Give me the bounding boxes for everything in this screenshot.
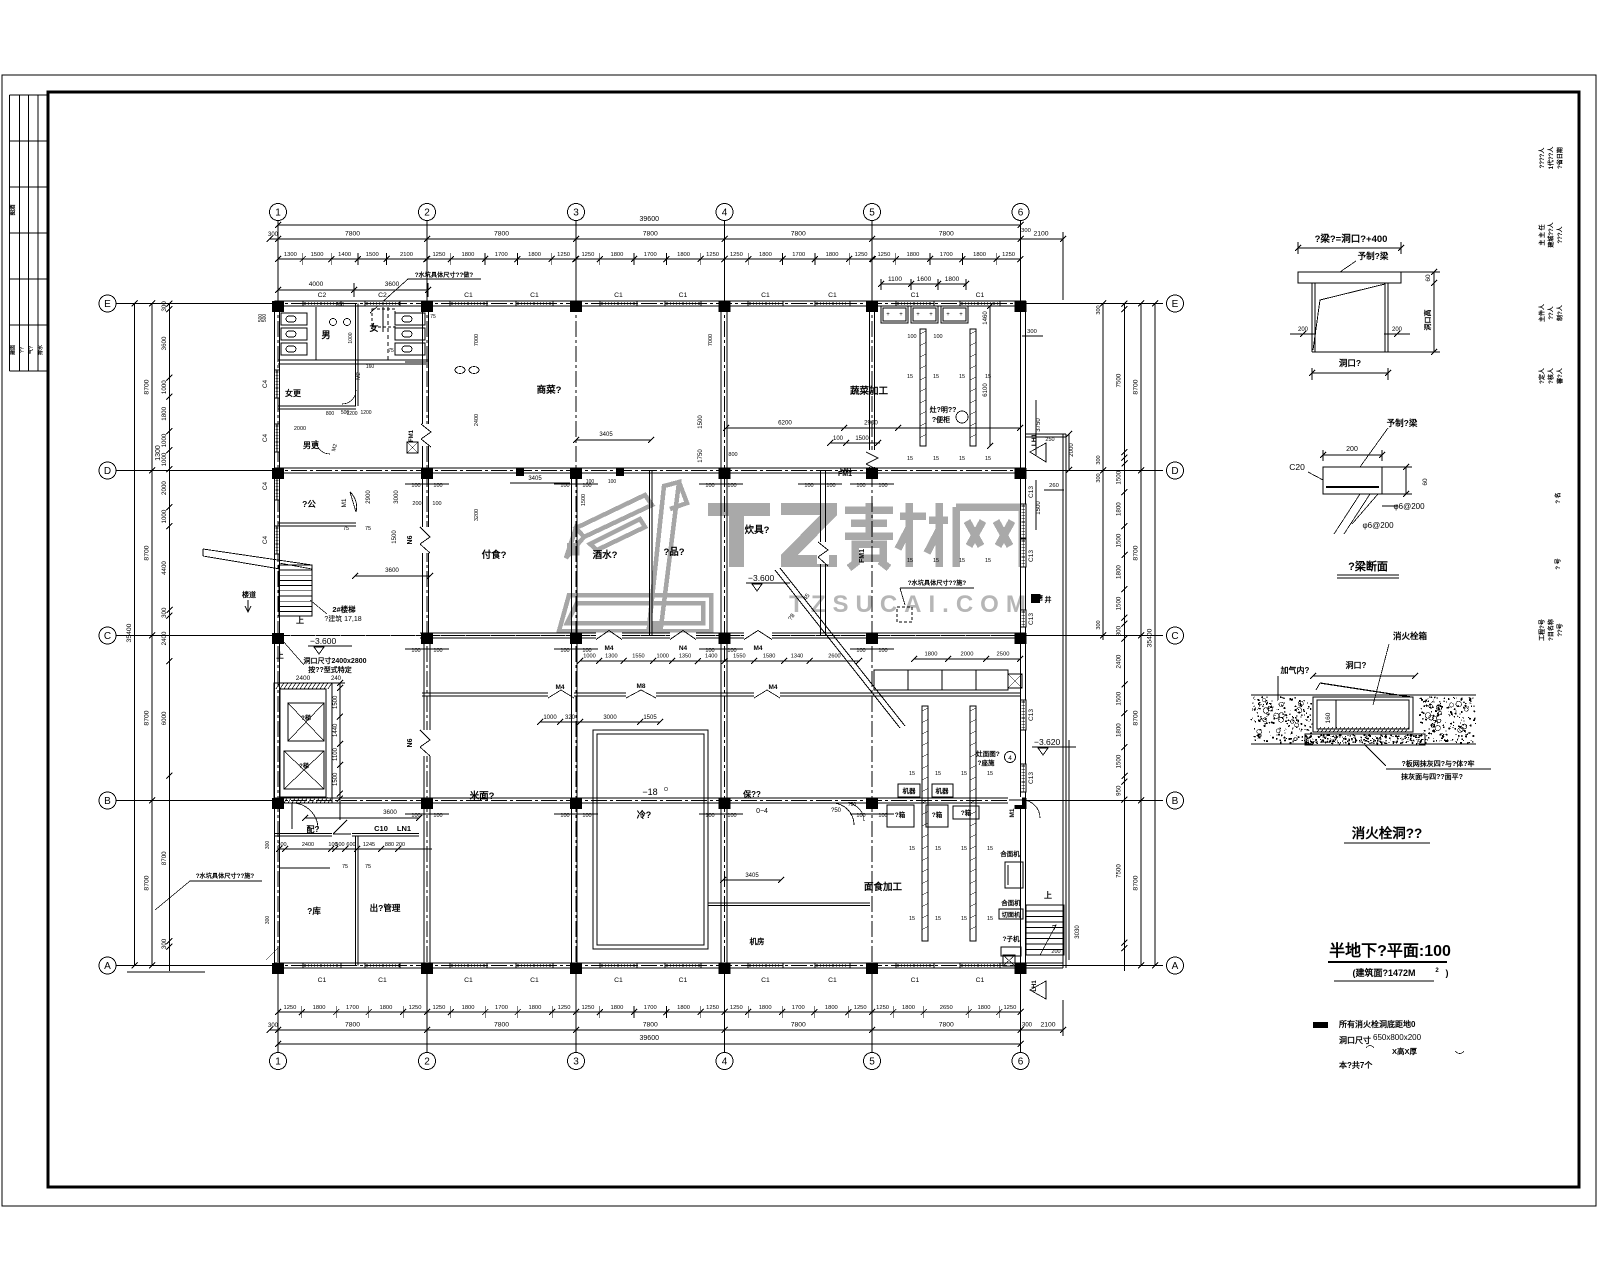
door FM1 grid2 upper <box>420 424 432 446</box>
svg-text:?品?: ?品? <box>663 547 684 558</box>
grid circles top <box>270 204 287 221</box>
svg-text:洞口高: 洞口高 <box>1423 310 1432 331</box>
extra pier columns along D <box>516 468 524 476</box>
svg-text:予制?梁: 予制?梁 <box>1387 418 1418 428</box>
svg-text:1800: 1800 <box>1116 502 1123 516</box>
svg-text:???人: ???人 <box>1556 226 1564 244</box>
svg-text:机房: 机房 <box>750 936 765 946</box>
bottom dimension detail line <box>278 1011 427 1013</box>
svg-text:15: 15 <box>961 846 967 852</box>
elevator car 2 <box>284 751 324 789</box>
bottom dimension 7800 line <box>270 1029 1064 1031</box>
svg-text:260: 260 <box>1049 483 1059 489</box>
svg-text:?梁?=洞口?+400: ?梁?=洞口?+400 <box>1315 233 1388 245</box>
svg-text:FM1: FM1 <box>859 549 866 563</box>
mid partition vertical x650 <box>649 471 651 636</box>
right exterior wall <box>1020 304 1022 969</box>
svg-text:A: A <box>1172 961 1179 972</box>
grid3 wall vertical <box>571 471 573 636</box>
svg-text:FM1: FM1 <box>409 429 415 442</box>
elevator lobby bottom wall <box>279 867 330 869</box>
svg-text:1500: 1500 <box>855 436 869 442</box>
svg-text:8700: 8700 <box>1133 545 1140 560</box>
svg-text:300: 300 <box>268 1023 279 1029</box>
svg-text:160: 160 <box>366 364 375 370</box>
svg-text:1代??人: 1代??人 <box>1547 146 1555 170</box>
svg-text:C1: C1 <box>911 977 920 984</box>
detail lintel piers <box>1311 283 1313 352</box>
svg-text:1250: 1250 <box>581 252 594 258</box>
svg-text:800: 800 <box>728 452 737 458</box>
wing right vert dim 7500 <box>1068 740 1070 960</box>
svg-text:+: + <box>959 312 963 318</box>
svg-text:650x800x200: 650x800x200 <box>1373 1033 1422 1042</box>
svg-text:1800: 1800 <box>461 252 474 258</box>
svg-text:C1: C1 <box>679 292 688 299</box>
door FM1 wall5 top <box>866 450 878 467</box>
svg-text:唐: 唐 <box>1036 594 1043 602</box>
rack bars upper <box>920 329 926 446</box>
svg-text:1700: 1700 <box>495 1005 508 1011</box>
svg-text:2000: 2000 <box>1069 443 1075 457</box>
svg-text:3600: 3600 <box>385 281 400 288</box>
svg-text:300: 300 <box>1027 329 1037 335</box>
svg-text:300: 300 <box>1096 455 1102 464</box>
wall B <box>275 797 1027 799</box>
svg-text:4: 4 <box>1008 755 1012 762</box>
ramp diagonal <box>775 570 900 728</box>
smoke shaft <box>1031 594 1040 603</box>
svg-text:2400: 2400 <box>1116 654 1123 668</box>
svg-text:1700: 1700 <box>792 252 805 258</box>
svg-text:C1: C1 <box>318 977 327 984</box>
svg-text:1245: 1245 <box>363 842 375 848</box>
svg-text:3600: 3600 <box>161 336 168 350</box>
svg-text:洞口尺寸: 洞口尺寸 <box>1339 1035 1371 1045</box>
toilet door arcs <box>342 390 356 404</box>
svg-text:250: 250 <box>1045 437 1054 443</box>
svg-text:所有消火栓洞底距地0: 所有消火栓洞底距地0 <box>1338 1019 1416 1029</box>
hydrant stipple circles <box>1257 698 1468 740</box>
svg-text:?梯: ?梯 <box>301 714 311 722</box>
svg-text:1350: 1350 <box>679 654 691 660</box>
display boxes bay5 <box>881 306 908 323</box>
svg-text:保??: 保?? <box>742 789 761 799</box>
svg-text:300: 300 <box>277 842 286 848</box>
right wing top wall <box>1026 433 1066 435</box>
svg-text:(建筑面?1472M: (建筑面?1472M <box>1352 967 1415 978</box>
svg-text:排水: 排水 <box>37 344 44 355</box>
svg-text:2000: 2000 <box>961 652 974 658</box>
svg-text:1250: 1250 <box>409 1005 422 1011</box>
svg-text:300: 300 <box>1096 305 1102 314</box>
svg-text:300: 300 <box>161 938 168 949</box>
svg-text:B: B <box>1172 796 1179 807</box>
svg-text:C1: C1 <box>530 292 539 299</box>
svg-text:1700: 1700 <box>644 1005 657 1011</box>
svg-text:75: 75 <box>430 314 436 320</box>
svg-text:C1: C1 <box>761 292 770 299</box>
svg-text:1200: 1200 <box>360 410 371 416</box>
svg-text:1250: 1250 <box>854 1005 867 1011</box>
svg-text:8700: 8700 <box>1133 710 1140 725</box>
svg-text:X高X厚: X高X厚 <box>1392 1046 1418 1056</box>
svg-text:?便柜: ?便柜 <box>932 415 950 424</box>
svg-text:C4: C4 <box>262 379 269 388</box>
svg-text:1800: 1800 <box>528 1005 541 1011</box>
svg-text:3600: 3600 <box>383 809 397 816</box>
svg-text:160: 160 <box>1325 712 1332 723</box>
floor drain box <box>407 442 418 453</box>
svg-text:+: + <box>929 312 933 318</box>
machine boxes right wing <box>898 784 920 797</box>
svg-text:消火栓箱: 消火栓箱 <box>1393 631 1428 641</box>
toilet inner partition lines <box>315 307 317 360</box>
svg-text:切面机: 切面机 <box>1002 911 1021 919</box>
svg-text:300: 300 <box>1096 473 1102 482</box>
svg-text:2900: 2900 <box>864 420 878 427</box>
svg-text:1250: 1250 <box>855 252 868 258</box>
hydrant stipple texture <box>1251 696 1477 744</box>
detail beam rebar leaders <box>1334 494 1360 534</box>
left exterior wall <box>274 304 276 969</box>
wall D <box>275 467 1027 469</box>
svg-text:C1: C1 <box>761 977 770 984</box>
svg-text:φ6@200: φ6@200 <box>1362 521 1394 530</box>
right wall windows C13 <box>1021 504 1027 538</box>
svg-text:?板网抹灰四?与?体?牢: ?板网抹灰四?与?体?牢 <box>1401 759 1474 768</box>
svg-text:机器: 机器 <box>903 786 917 795</box>
svg-text:4000: 4000 <box>309 281 324 288</box>
svg-text:?库: ?库 <box>307 906 321 916</box>
svg-text:1300: 1300 <box>605 654 617 660</box>
right dimension detail line <box>1123 304 1125 972</box>
svg-text:C1: C1 <box>976 292 985 299</box>
right offset chain line <box>1102 304 1104 641</box>
svg-text:3405: 3405 <box>528 476 542 482</box>
svg-text:?水坑具体尺寸??做?: ?水坑具体尺寸??做? <box>415 271 474 279</box>
elevator car 1 <box>288 703 324 741</box>
grid row lines A-E <box>116 303 1166 305</box>
svg-text:2400: 2400 <box>296 675 311 682</box>
svg-text:?50: ?50 <box>831 808 842 814</box>
door LH wing bottom <box>1030 981 1046 999</box>
svg-text:?梁断面: ?梁断面 <box>1348 559 1388 573</box>
svg-text:酒水?: 酒水? <box>593 549 618 561</box>
svg-text:1000: 1000 <box>161 452 168 466</box>
svg-text:2: 2 <box>424 208 430 219</box>
svg-text:2000: 2000 <box>161 481 168 495</box>
svg-text:60: 60 <box>1422 478 1429 486</box>
svg-text:配?: 配? <box>307 825 320 834</box>
svg-text:??: ?? <box>20 347 26 353</box>
top extension lines <box>277 221 279 300</box>
note squiggles <box>1366 1046 1374 1049</box>
shelf dim row right <box>914 658 1020 660</box>
svg-text:????人: ????人 <box>1538 147 1546 169</box>
svg-text:15: 15 <box>933 558 939 564</box>
svg-text:抹灰面与四??面平?: 抹灰面与四??面平? <box>1401 772 1463 781</box>
svg-text:3: 3 <box>573 1057 579 1068</box>
svg-text:75: 75 <box>365 864 371 870</box>
svg-text:35400: 35400 <box>126 623 133 642</box>
svg-text:−3.600: −3.600 <box>748 573 775 583</box>
hydrant wall stipple left <box>1251 695 1476 744</box>
svg-text:1250: 1250 <box>706 252 719 258</box>
corridor dim row below C <box>580 660 860 662</box>
svg-text:1000: 1000 <box>348 332 354 343</box>
svg-text:C4: C4 <box>262 433 269 442</box>
grid column lines 1-6 <box>277 221 279 1052</box>
svg-text:N4: N4 <box>679 645 688 652</box>
svg-text:100: 100 <box>907 334 916 340</box>
svg-text:−18: −18 <box>642 787 657 797</box>
svg-text:15: 15 <box>909 916 915 922</box>
svg-text:商菜?: 商菜? <box>537 384 562 396</box>
svg-text:1250: 1250 <box>432 1005 445 1011</box>
room partition ED band x278-356 y523 <box>278 522 356 524</box>
svg-text:8700: 8700 <box>161 851 168 865</box>
svg-text:1800: 1800 <box>528 252 541 258</box>
wall E <box>275 300 1027 302</box>
svg-text:1800: 1800 <box>925 652 938 658</box>
svg-text:2#楼梯: 2#楼梯 <box>332 604 356 614</box>
svg-text:300: 300 <box>1096 620 1102 629</box>
svg-text:1000: 1000 <box>656 654 668 660</box>
svg-text:C13: C13 <box>1028 550 1035 562</box>
svg-text:?定人: ?定人 <box>1538 367 1546 384</box>
freezer cold room <box>593 730 708 949</box>
doors along wall C <box>596 633 622 640</box>
svg-text:−3.620: −3.620 <box>1034 737 1061 747</box>
svg-text:300: 300 <box>161 301 168 312</box>
svg-text:1800: 1800 <box>906 252 919 258</box>
dim 3600 left B-A <box>305 817 419 819</box>
machine room partition <box>708 902 870 904</box>
svg-text:15: 15 <box>961 771 967 777</box>
wc stalls women <box>395 313 425 325</box>
svg-text:合面机: 合面机 <box>999 849 1020 858</box>
svg-text:D: D <box>1171 466 1178 477</box>
svg-text:男: 男 <box>321 330 330 340</box>
svg-text:15: 15 <box>987 771 993 777</box>
svg-text:5: 5 <box>869 1057 875 1068</box>
svg-text:?箱: ?箱 <box>961 808 972 817</box>
svg-text:1250: 1250 <box>730 252 743 258</box>
svg-text:200: 200 <box>1298 327 1309 333</box>
svg-text:?省日期: ?省日期 <box>1556 147 1564 169</box>
svg-text:8700: 8700 <box>144 545 151 560</box>
detail lintel height dim <box>1433 272 1435 352</box>
svg-text:1500: 1500 <box>1116 533 1123 547</box>
svg-text:1250: 1250 <box>1003 1005 1016 1011</box>
hydrant niche box <box>1313 697 1413 732</box>
svg-text:楼道: 楼道 <box>242 590 256 599</box>
svg-text:1000: 1000 <box>583 654 595 660</box>
svg-text:?座施: ?座施 <box>978 758 995 767</box>
svg-text:1800: 1800 <box>161 406 168 420</box>
svg-text:1340: 1340 <box>791 654 803 660</box>
svg-text:1500: 1500 <box>1036 501 1042 515</box>
svg-text:+: + <box>899 312 903 318</box>
svg-text:1750: 1750 <box>698 449 704 463</box>
svg-text:C4: C4 <box>262 481 269 490</box>
svg-text:M8: M8 <box>636 683 645 690</box>
svg-text:15: 15 <box>987 916 993 922</box>
svg-text:气?: 气? <box>28 346 35 355</box>
svg-text:建城??人: 建城??人 <box>1547 221 1555 247</box>
corridor partition dims <box>540 721 660 723</box>
right dimension 8700 line <box>1140 304 1142 966</box>
svg-text:炊具?: 炊具? <box>745 524 770 536</box>
svg-text:): ) <box>1446 968 1449 978</box>
door M6 grid2 lower <box>419 730 432 756</box>
svg-text:1500: 1500 <box>1116 691 1123 705</box>
svg-text:75: 75 <box>365 526 371 532</box>
svg-text:1: 1 <box>275 1057 281 1068</box>
door at left B x830 <box>832 803 854 825</box>
svg-text:+: + <box>886 312 890 318</box>
sinks row <box>330 319 337 326</box>
svg-text:+: + <box>916 312 920 318</box>
svg-text:1250: 1250 <box>706 1005 719 1011</box>
watermark text TZ su cai wang <box>708 503 837 567</box>
toilet cell partitions <box>387 307 389 360</box>
svg-text:1500: 1500 <box>311 252 324 258</box>
svg-text:2650: 2650 <box>940 1005 953 1011</box>
svg-text:1100: 1100 <box>888 276 902 283</box>
svg-text:1500: 1500 <box>366 252 379 258</box>
stair bottom right wing <box>1026 905 1064 955</box>
svg-text:7800: 7800 <box>939 1022 954 1029</box>
svg-text:1000: 1000 <box>161 380 168 394</box>
svg-text:1800: 1800 <box>1116 565 1123 579</box>
svg-text:? 号: ? 号 <box>1554 558 1562 569</box>
svg-text:上: 上 <box>1044 890 1052 900</box>
svg-text:100: 100 <box>586 479 595 485</box>
svg-text:1500: 1500 <box>581 494 587 506</box>
vestibule dashed rect <box>372 309 395 327</box>
svg-text:合面机: 合面机 <box>1000 898 1021 907</box>
detail lintel dim line top <box>1298 247 1401 249</box>
svg-text:C1: C1 <box>614 292 623 299</box>
svg-text:1700: 1700 <box>346 1005 359 1011</box>
svg-text:3000: 3000 <box>394 490 400 504</box>
svg-text:2100: 2100 <box>400 252 413 258</box>
svg-text:+: + <box>946 312 950 318</box>
svg-text:4: 4 <box>722 208 728 219</box>
svg-text:300: 300 <box>161 607 168 618</box>
svg-text:主件人: 主件人 <box>1538 303 1546 322</box>
svg-text:6100: 6100 <box>983 383 989 397</box>
svg-text:1800: 1800 <box>759 252 772 258</box>
svg-text:1500: 1500 <box>1116 596 1123 610</box>
grid circles right <box>1167 295 1184 312</box>
svg-text:工程?号: 工程?号 <box>1538 619 1546 641</box>
svg-text:1800: 1800 <box>1116 723 1123 737</box>
svg-text:15: 15 <box>935 916 941 922</box>
svg-text:7800: 7800 <box>494 1022 509 1029</box>
svg-text:1100: 1100 <box>333 747 339 761</box>
svg-text:2100: 2100 <box>1040 1022 1055 1029</box>
svg-text:4400: 4400 <box>161 561 168 575</box>
svg-text:1800: 1800 <box>945 276 960 283</box>
svg-text:−3.600: −3.600 <box>310 636 337 646</box>
detail lintel diagonal <box>1313 284 1385 350</box>
door N1 partition y833 <box>332 831 352 838</box>
svg-text:1800: 1800 <box>978 1005 991 1011</box>
svg-text:950: 950 <box>1116 785 1123 796</box>
svg-text:320: 320 <box>565 715 576 721</box>
door M1 right wing at B <box>1008 797 1022 805</box>
svg-text:500: 500 <box>341 410 350 416</box>
top dimension total 39600 <box>278 224 1021 226</box>
svg-text:200: 200 <box>412 501 421 507</box>
svg-text:?箱: ?箱 <box>895 810 906 819</box>
svg-text:7800: 7800 <box>345 1022 360 1029</box>
svg-text:C20: C20 <box>1289 462 1305 472</box>
svg-text:1250: 1250 <box>557 252 570 258</box>
svg-text:1250: 1250 <box>432 252 445 258</box>
svg-text:500: 500 <box>262 314 268 323</box>
grid circles left <box>99 295 116 312</box>
svg-text:1700: 1700 <box>940 252 953 258</box>
svg-text:39600: 39600 <box>640 216 660 223</box>
svg-text:C10: C10 <box>374 824 388 833</box>
svg-text:1000: 1000 <box>161 433 168 447</box>
bay5 extra dim <box>881 283 966 285</box>
svg-text:C1: C1 <box>828 977 837 984</box>
elevator hatch walls <box>276 683 332 803</box>
svg-text:C13: C13 <box>1028 486 1035 498</box>
svg-text:洞口尺寸2400x2800: 洞口尺寸2400x2800 <box>303 656 366 665</box>
left dimension 8700 line <box>151 304 153 966</box>
svg-text:1440: 1440 <box>333 723 339 737</box>
svg-text:7000: 7000 <box>708 334 714 346</box>
svg-text:1800: 1800 <box>973 252 986 258</box>
svg-text:1800: 1800 <box>825 1005 838 1011</box>
hydrant lid open <box>1320 683 1411 697</box>
svg-text:15: 15 <box>935 771 941 777</box>
svg-text:1300: 1300 <box>284 252 297 258</box>
svg-text:冷?: 冷? <box>637 809 652 820</box>
svg-text:15: 15 <box>959 558 965 564</box>
svg-text:1250: 1250 <box>730 1005 743 1011</box>
svg-text:M2: M2 <box>356 372 362 380</box>
svg-text:主 主 任: 主 主 任 <box>1538 224 1546 245</box>
svg-text:C2: C2 <box>318 292 327 299</box>
wall E windows <box>303 301 341 306</box>
svg-text:3750: 3750 <box>1036 418 1042 432</box>
svg-text:?水坑具体尺寸??施?: ?水坑具体尺寸??施? <box>908 579 967 587</box>
svg-text:B: B <box>104 796 111 807</box>
svg-text:?核人: ?核人 <box>1547 367 1555 384</box>
svg-text:??人: ??人 <box>1547 305 1555 319</box>
svg-text:C1: C1 <box>911 292 920 299</box>
svg-text:2500: 2500 <box>997 652 1010 658</box>
grid4 wall vertical <box>720 304 722 471</box>
svg-text:15: 15 <box>985 456 991 462</box>
svg-text:E: E <box>1172 299 1179 310</box>
svg-text:2600: 2600 <box>828 654 840 660</box>
svg-text:灶?明??: 灶?明?? <box>930 405 957 414</box>
svg-text:2900: 2900 <box>366 490 372 504</box>
svg-text:灶面图?: 灶面图? <box>976 749 1000 758</box>
svg-text:5: 5 <box>869 208 875 219</box>
svg-text:100: 100 <box>608 479 617 485</box>
bottom extension lines <box>277 975 279 1052</box>
svg-text:C1: C1 <box>464 977 473 984</box>
